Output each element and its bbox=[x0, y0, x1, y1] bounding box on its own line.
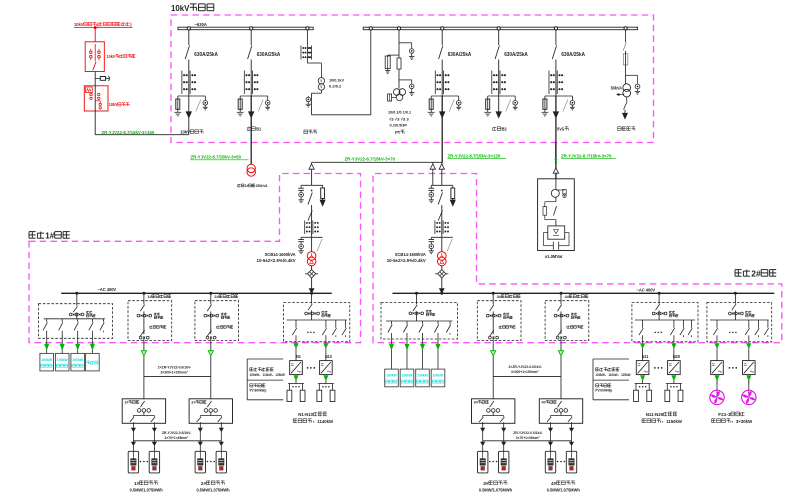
svg-text:N10: N10 bbox=[325, 354, 332, 359]
svg-text:2#: 2# bbox=[201, 481, 207, 487]
svg-text:SVG: SVG bbox=[557, 127, 565, 132]
svg-text:ZR-YJV22-8.7/15kV-3×50: ZR-YJV22-8.7/15kV-3×50 bbox=[191, 155, 242, 160]
svg-text:100kW: 100kW bbox=[417, 373, 428, 378]
svg-text:±1.0MVar: ±1.0MVar bbox=[545, 254, 563, 259]
svg-text:N1-N10: N1-N10 bbox=[298, 412, 313, 418]
svg-text:B2: B2 bbox=[502, 127, 508, 132]
svg-text:1150kW: 1150kW bbox=[666, 419, 682, 425]
svg-text:10kV: 10kV bbox=[74, 22, 84, 27]
svg-text:630A/25kA: 630A/25kA bbox=[504, 52, 528, 58]
svg-text:2×ZR-YJV22-0.6/1kV-: 2×ZR-YJV22-0.6/1kV- bbox=[509, 365, 543, 369]
svg-text:ZR-YJV22-0.6/1kV-: ZR-YJV22-0.6/1kV- bbox=[162, 431, 192, 435]
svg-text:3#: 3# bbox=[483, 481, 489, 487]
svg-text:10kV: 10kV bbox=[107, 54, 116, 59]
svg-text:50kVA: 50kVA bbox=[611, 85, 622, 90]
svg-text:10kV: 10kV bbox=[171, 3, 190, 13]
svg-text:10kV: 10kV bbox=[109, 102, 118, 107]
svg-text:630A/25kA: 630A/25kA bbox=[561, 52, 585, 58]
svg-text:100kW: 100kW bbox=[433, 373, 444, 378]
svg-text:ZR-YJV22-8.7/15kV-3×70: ZR-YJV22-8.7/15kV-3×70 bbox=[345, 157, 396, 162]
svg-text:10kV: 10kV bbox=[180, 130, 191, 135]
svg-text:100kW: 100kW bbox=[72, 357, 83, 362]
svg-text:B1: B1 bbox=[256, 127, 261, 132]
svg-text:~630A: ~630A bbox=[195, 22, 208, 27]
svg-text:110kW: 110kW bbox=[263, 373, 273, 377]
svg-text:125kW: 125kW bbox=[275, 373, 285, 377]
svg-text:3×300+1×150mm²: 3×300+1×150mm² bbox=[511, 370, 539, 374]
svg-text:~AC 400V: ~AC 400V bbox=[98, 287, 117, 292]
svg-text:3×70+1×35mm²: 3×70+1×35mm² bbox=[516, 436, 541, 440]
svg-text:0.5MW/1.075MWh: 0.5MW/1.075MWh bbox=[547, 488, 580, 494]
svg-text:N1: N1 bbox=[296, 354, 301, 359]
svg-text:2#: 2# bbox=[751, 269, 761, 279]
svg-text:100kW: 100kW bbox=[250, 373, 260, 377]
svg-text:3×30kW: 3×30kW bbox=[736, 419, 753, 425]
svg-text:PV:600kWp: PV:600kWp bbox=[595, 389, 612, 393]
svg-text:1140kW: 1140kW bbox=[317, 419, 333, 425]
svg-text:10/0.1kV: 10/0.1kV bbox=[329, 78, 344, 83]
svg-text:0.5MW/1.075MWh: 0.5MW/1.075MWh bbox=[130, 488, 163, 494]
svg-text:100kW: 100kW bbox=[41, 357, 52, 362]
svg-text:~AC 400V: ~AC 400V bbox=[637, 288, 656, 293]
svg-text:2×ZR-YJV22-0.6/1kV-: 2×ZR-YJV22-0.6/1kV- bbox=[158, 365, 192, 369]
svg-text:10/0.1/0.1/0.1: 10/0.1/0.1/0.1 bbox=[388, 110, 412, 115]
svg-text:ZR-YJV22-8.7/15kV-3×120: ZR-YJV22-8.7/15kV-3×120 bbox=[448, 154, 501, 159]
svg-text:1#: 1# bbox=[147, 294, 152, 299]
svg-text:1#: 1# bbox=[245, 184, 249, 188]
svg-text:0.5MW/1.075MWh: 0.5MW/1.075MWh bbox=[479, 488, 512, 494]
svg-text:N11-N20: N11-N20 bbox=[646, 412, 664, 418]
svg-text:0.5MW/1.075MWh: 0.5MW/1.075MWh bbox=[197, 488, 230, 494]
svg-text:250kVA: 250kVA bbox=[256, 184, 268, 188]
svg-text:SCB14-1600kVA: SCB14-1600kVA bbox=[395, 252, 427, 257]
svg-text:125kW: 125kW bbox=[621, 373, 631, 377]
svg-text:1#: 1# bbox=[134, 481, 139, 487]
svg-text:10-5±2×2.5%/0.4kV: 10-5±2×2.5%/0.4kV bbox=[387, 258, 426, 263]
svg-text:10-5±2×2.5%/0.4kV: 10-5±2×2.5%/0.4kV bbox=[257, 258, 296, 263]
svg-text:110kW: 110kW bbox=[608, 373, 618, 377]
svg-text:4#: 4# bbox=[551, 481, 557, 487]
svg-text:SCB14-1600kVA: SCB14-1600kVA bbox=[265, 252, 297, 257]
svg-text:3×70+1×35mm²: 3×70+1×35mm² bbox=[165, 436, 190, 440]
svg-text:N20: N20 bbox=[673, 354, 681, 359]
svg-text:630A/25kA: 630A/25kA bbox=[194, 52, 218, 58]
svg-text:0.2/0.2: 0.2/0.2 bbox=[329, 84, 342, 89]
svg-text:√3 √3 √3 3: √3 √3 √3 3 bbox=[389, 117, 410, 122]
svg-text:3×300+1×150mm²: 3×300+1×150mm² bbox=[161, 370, 189, 374]
svg-text:F21-3: F21-3 bbox=[718, 412, 731, 418]
svg-text:1#: 1# bbox=[45, 231, 54, 241]
svg-text:100kW: 100kW bbox=[386, 373, 397, 378]
svg-text:100kW: 100kW bbox=[57, 357, 68, 362]
svg-text:N11: N11 bbox=[642, 354, 649, 359]
svg-text:630A/25kA: 630A/25kA bbox=[448, 52, 472, 58]
svg-text:ZR-YJV22-8.7/15kV-3×70: ZR-YJV22-8.7/15kV-3×70 bbox=[561, 154, 612, 159]
svg-text:PT: PT bbox=[395, 130, 400, 135]
svg-text:100kW: 100kW bbox=[402, 373, 413, 378]
svg-text:630A/25kA: 630A/25kA bbox=[257, 52, 281, 58]
svg-text:PV:600kWp: PV:600kWp bbox=[250, 389, 267, 393]
svg-text:0.2/0.5/3P: 0.2/0.5/3P bbox=[390, 122, 408, 127]
svg-text:ZR-YJV22-8.7/15kV-3×150: ZR-YJV22-8.7/15kV-3×150 bbox=[102, 130, 155, 135]
svg-text:100kW: 100kW bbox=[595, 373, 605, 377]
svg-text:ZR-YJV22-0.6/1kV-: ZR-YJV22-0.6/1kV- bbox=[513, 431, 543, 435]
